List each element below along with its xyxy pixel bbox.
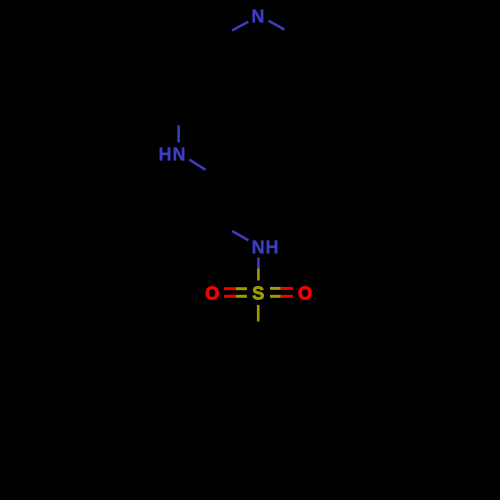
double bond S1=O2 lower line (S half olive, O half red)	[270, 295, 281, 298]
svg-text:S: S	[252, 284, 264, 304]
bond CH2-N3 (upper-left half into NH, N colored)	[232, 231, 248, 240]
bond N2-CH2 (lower-right half from HN, N colored)	[189, 160, 205, 170]
bond S1-C(phenyl) (upper half, S colored)	[257, 305, 260, 322]
bond N1-C6 (upper-right half, N colored)	[269, 21, 285, 30]
svg-text:H: H	[159, 145, 172, 165]
double bond S1=O1 upper line (O half red, S half olive)	[224, 287, 236, 290]
svg-text:N: N	[251, 7, 264, 27]
bond N1-C2 (upper-left half, N colored)	[232, 22, 248, 31]
double bond S1=O2 upper line (S half olive, O half red)	[270, 287, 281, 290]
bond N3-S (upper half, N colored)	[257, 258, 260, 269]
double bond S1=O1 lower line (O half red, S half olive)	[224, 295, 236, 298]
svg-text:O: O	[298, 284, 312, 304]
bond N3-S (lower half, S colored)	[257, 268, 260, 280]
bond C-N2 (vertical half above HN, N colored)	[177, 125, 180, 142]
svg-text:H: H	[266, 237, 279, 257]
svg-text:O: O	[205, 284, 219, 304]
svg-text:N: N	[173, 145, 186, 165]
svg-text:N: N	[252, 237, 265, 257]
